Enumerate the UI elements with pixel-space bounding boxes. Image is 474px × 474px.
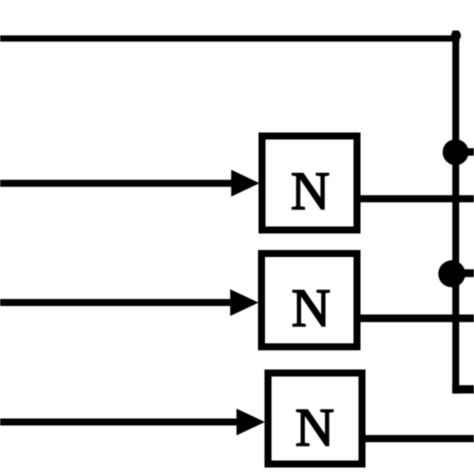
wire: stub from junction J2 to right edge — [451, 269, 474, 277]
block N2 (neuron box) — [262, 254, 358, 347]
svg-text:N: N — [292, 278, 331, 338]
wire: right vertical bus — [452, 31, 459, 394]
wire: output of block N1 to right edge — [360, 195, 474, 202]
junction dot J2 on bus — [438, 260, 465, 287]
wire: output of block N3 to right edge — [365, 435, 474, 442]
block N3 (neuron box) — [268, 373, 362, 464]
arrowhead into block N3 — [237, 409, 265, 436]
svg-text:N: N — [291, 161, 330, 221]
wire: stub from junction J1 to right edge — [455, 148, 474, 156]
wire: output of block N2 to right edge — [360, 315, 474, 323]
block N1 (neuron box) — [262, 136, 357, 230]
wire: input line to block N1 — [0, 180, 235, 187]
svg-text:N: N — [295, 397, 334, 457]
arrowhead into block N2 — [230, 289, 258, 316]
wire: input line to block N3 — [0, 419, 240, 426]
wire: bus bottom elbow going right off-canvas — [452, 385, 474, 393]
wire: corner cap bump at top of bus — [451, 31, 461, 41]
arrowhead into block N1 — [231, 170, 259, 197]
wire: top feedback line from left edge to vertical bus — [0, 35, 460, 41]
junction dot J1 on bus — [443, 139, 469, 165]
wire: input line to block N2 — [0, 299, 234, 306]
